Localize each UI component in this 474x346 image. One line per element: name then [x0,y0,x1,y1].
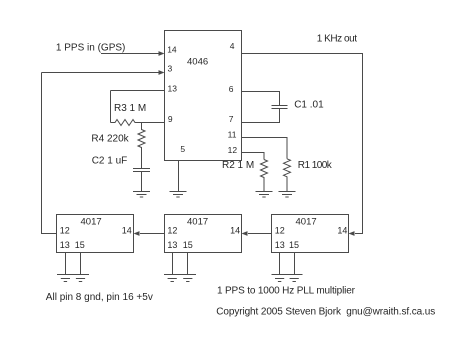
svg-text:13: 13 [168,84,178,94]
svg-text:12: 12 [167,226,177,236]
svg-text:C2 1 uF: C2 1 uF [92,156,128,167]
svg-text:11: 11 [228,129,237,139]
svg-text:4017: 4017 [187,217,208,228]
svg-text:4046: 4046 [187,57,208,68]
svg-text:9: 9 [168,114,173,124]
svg-text:Copyright 2005 Steven Bjork g: Copyright 2005 Steven Bjork gnu@wraith.s… [216,307,435,318]
svg-text:14: 14 [167,45,177,55]
svg-text:4: 4 [230,41,235,51]
svg-text:15: 15 [289,240,299,250]
svg-text:1 PPS to 1000 Hz PLL multiplie: 1 PPS to 1000 Hz PLL multiplier [217,286,356,297]
svg-text:4017: 4017 [296,217,317,228]
svg-text:15: 15 [183,240,193,250]
svg-text:14: 14 [337,226,347,236]
svg-text:12: 12 [228,145,238,155]
svg-text:1 PPS in (GPS): 1 PPS in (GPS) [56,43,125,54]
svg-text:C1 .01: C1 .01 [294,100,324,111]
svg-text:3: 3 [168,64,173,74]
svg-text:1 KHz out: 1 KHz out [317,34,358,45]
svg-text:R4 220k: R4 220k [91,133,129,144]
svg-text:6: 6 [229,84,234,94]
svg-text:R1 100k: R1 100k [298,160,333,171]
svg-text:15: 15 [75,240,85,250]
svg-text:13: 13 [60,240,70,250]
svg-text:R3 1 M: R3 1 M [114,103,146,114]
svg-text:7: 7 [229,114,234,124]
svg-text:12: 12 [275,226,285,236]
svg-text:13: 13 [275,240,285,250]
svg-text:All pin 8 gnd, pin 16 +5v: All pin 8 gnd, pin 16 +5v [46,292,153,303]
svg-text:12: 12 [60,225,70,235]
svg-text:4017: 4017 [81,217,102,228]
svg-text:14: 14 [122,225,132,235]
svg-text:5: 5 [180,144,185,154]
svg-text:R2 1 M: R2 1 M [222,160,254,171]
svg-text:14: 14 [230,226,240,236]
svg-text:13: 13 [167,240,177,250]
